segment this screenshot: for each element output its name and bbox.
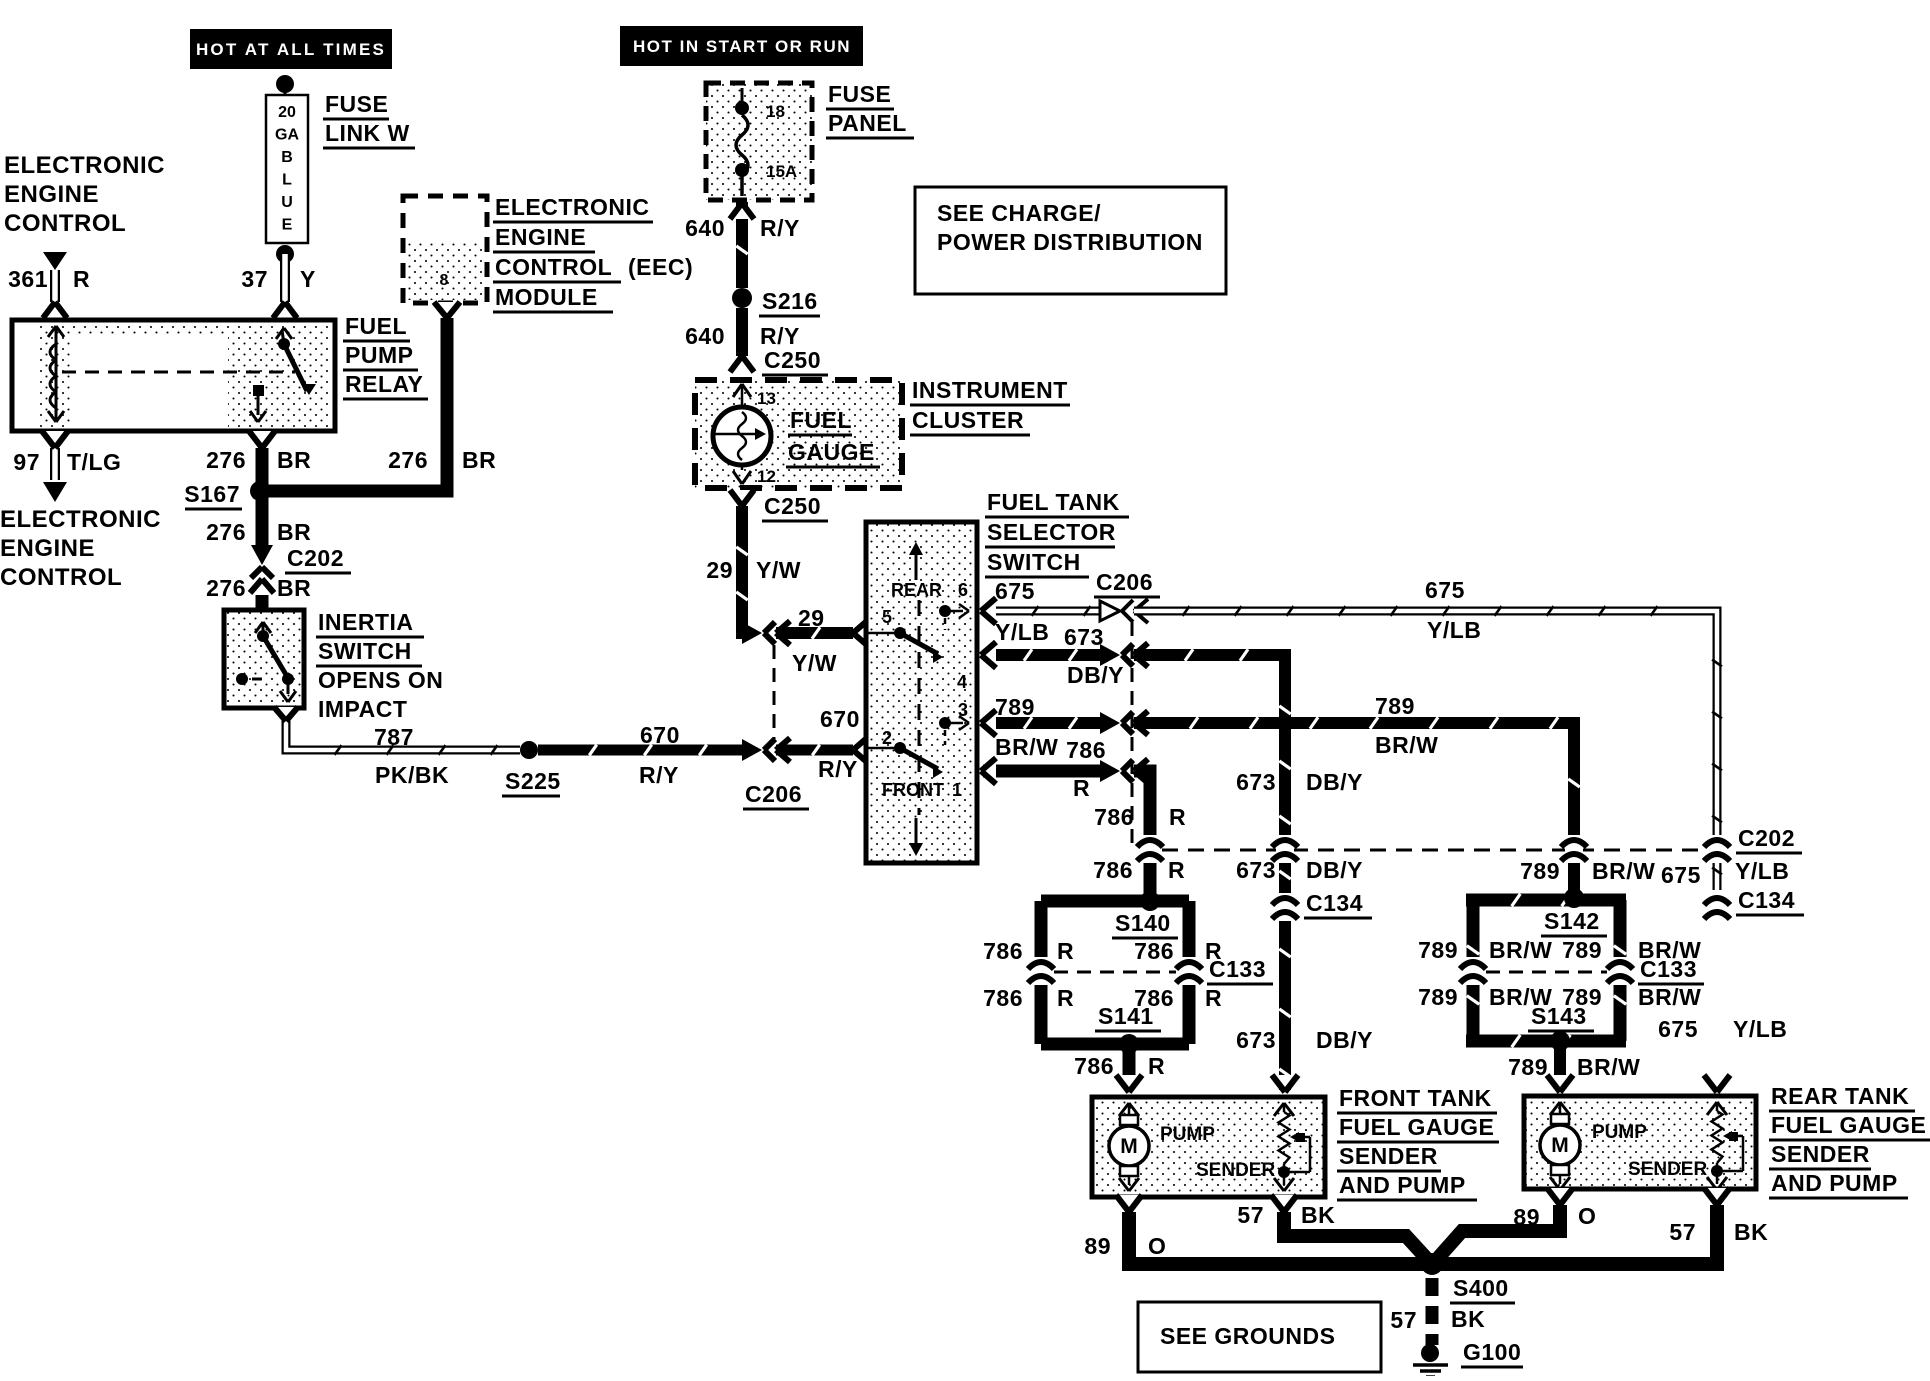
svg-text:FUEL GAUGE: FUEL GAUGE [1771, 1112, 1926, 1138]
svg-text:INSTRUMENT: INSTRUMENT [912, 377, 1068, 403]
svg-text:FRONT TANK: FRONT TANK [1339, 1085, 1492, 1111]
svg-text:789: 789 [1508, 1054, 1548, 1080]
svg-text:BR: BR [277, 575, 311, 601]
svg-text:REAR TANK: REAR TANK [1771, 1083, 1909, 1109]
svg-text:BK: BK [1451, 1306, 1485, 1332]
svg-text:ELECTRONIC: ELECTRONIC [495, 194, 650, 220]
svg-text:FUSE: FUSE [325, 91, 388, 117]
svg-text:S225: S225 [505, 768, 561, 794]
svg-text:786: 786 [983, 938, 1023, 964]
svg-text:18: 18 [766, 102, 785, 121]
svg-text:FUEL GAUGE: FUEL GAUGE [1339, 1114, 1494, 1140]
svg-text:2: 2 [882, 728, 892, 748]
svg-text:97: 97 [13, 449, 40, 475]
svg-text:276: 276 [206, 447, 246, 473]
svg-text:OPENS ON: OPENS ON [318, 667, 443, 693]
svg-text:SENDER: SENDER [1628, 1159, 1707, 1180]
svg-text:C134: C134 [1306, 890, 1363, 916]
svg-text:29: 29 [798, 605, 825, 631]
svg-text:789: 789 [1418, 984, 1458, 1010]
svg-text:M: M [1551, 1134, 1569, 1157]
svg-text:CONTROL: CONTROL [495, 254, 612, 280]
svg-text:GAUGE: GAUGE [788, 439, 875, 465]
svg-text:PUMP: PUMP [1160, 1124, 1215, 1145]
svg-text:B: B [281, 149, 293, 166]
svg-text:T/LG: T/LG [67, 449, 121, 475]
svg-text:CONTROL: CONTROL [4, 210, 126, 237]
svg-text:GA: GA [275, 127, 299, 144]
svg-text:R: R [1205, 985, 1222, 1011]
svg-text:786: 786 [1066, 737, 1106, 763]
svg-text:O: O [1148, 1233, 1166, 1259]
svg-text:789: 789 [1562, 937, 1602, 963]
svg-text:C250: C250 [764, 493, 821, 519]
svg-text:CLUSTER: CLUSTER [912, 407, 1024, 433]
svg-text:AND PUMP: AND PUMP [1339, 1172, 1466, 1198]
svg-text:HOT AT ALL TIMES: HOT AT ALL TIMES [196, 40, 386, 59]
svg-text:29: 29 [706, 557, 733, 583]
svg-text:SEE GROUNDS: SEE GROUNDS [1160, 1323, 1335, 1349]
svg-text:37: 37 [241, 266, 268, 292]
svg-text:4: 4 [957, 672, 967, 692]
svg-text:R/Y: R/Y [818, 756, 858, 782]
svg-text:REAR: REAR [891, 580, 942, 600]
svg-text:FRONT: FRONT [882, 780, 944, 800]
svg-text:ENGINE: ENGINE [4, 181, 99, 208]
svg-text:G100: G100 [1463, 1339, 1521, 1365]
svg-text:HOT IN START OR RUN: HOT IN START OR RUN [633, 37, 851, 56]
svg-text:R: R [73, 266, 90, 292]
svg-text:787: 787 [374, 724, 414, 750]
svg-text:20: 20 [278, 104, 296, 121]
svg-text:R/Y: R/Y [760, 323, 800, 349]
svg-text:U: U [281, 194, 293, 211]
svg-text:O: O [1578, 1203, 1596, 1229]
svg-text:S167: S167 [184, 481, 240, 507]
svg-text:L: L [282, 172, 292, 189]
svg-text:DB/Y: DB/Y [1306, 857, 1363, 883]
svg-text:LINK W: LINK W [325, 120, 410, 146]
svg-text:Y/W: Y/W [756, 557, 801, 583]
svg-text:R/Y: R/Y [760, 215, 800, 241]
svg-text:POWER DISTRIBUTION: POWER DISTRIBUTION [937, 229, 1203, 255]
svg-text:Y/LB: Y/LB [1735, 858, 1789, 884]
svg-text:C202: C202 [1738, 825, 1795, 851]
svg-text:1: 1 [952, 780, 962, 800]
svg-text:8: 8 [440, 272, 449, 289]
svg-text:786: 786 [1093, 857, 1133, 883]
svg-text:BR: BR [462, 447, 496, 473]
svg-text:ENGINE: ENGINE [0, 535, 95, 562]
svg-text:673: 673 [1236, 857, 1276, 883]
svg-text:SENDER: SENDER [1196, 1160, 1275, 1181]
svg-text:673: 673 [1236, 769, 1276, 795]
svg-text:PK/BK: PK/BK [375, 762, 449, 788]
svg-text:BR/W: BR/W [1638, 984, 1701, 1010]
svg-text:89: 89 [1084, 1233, 1111, 1259]
svg-text:5: 5 [882, 607, 892, 627]
svg-text:PUMP: PUMP [1592, 1122, 1647, 1143]
svg-text:675: 675 [1661, 862, 1701, 888]
svg-text:670: 670 [640, 722, 680, 748]
svg-text:SENDER: SENDER [1771, 1141, 1870, 1167]
svg-text:FUSE: FUSE [828, 81, 891, 107]
svg-text:Y/W: Y/W [792, 650, 837, 676]
svg-text:673: 673 [1236, 1027, 1276, 1053]
svg-text:276: 276 [206, 575, 246, 601]
svg-text:SENDER: SENDER [1339, 1143, 1438, 1169]
svg-text:89: 89 [1513, 1204, 1540, 1230]
svg-text:C206: C206 [745, 781, 802, 807]
svg-text:13: 13 [757, 389, 776, 408]
svg-text:M: M [1120, 1135, 1138, 1158]
svg-text:R: R [1168, 857, 1185, 883]
svg-text:BR: BR [277, 447, 311, 473]
svg-text:789: 789 [995, 694, 1035, 720]
svg-text:640: 640 [685, 215, 725, 241]
svg-text:BK: BK [1734, 1219, 1768, 1245]
svg-text:FUEL TANK: FUEL TANK [987, 489, 1120, 515]
svg-text:SEE CHARGE/: SEE CHARGE/ [937, 200, 1101, 226]
svg-text:670: 670 [820, 706, 860, 732]
svg-text:(EEC): (EEC) [628, 254, 693, 280]
svg-text:R: R [1057, 985, 1074, 1011]
svg-text:R: R [1148, 1053, 1165, 1079]
svg-text:ELECTRONIC: ELECTRONIC [4, 152, 165, 179]
svg-text:675: 675 [1425, 577, 1465, 603]
svg-text:BR/W: BR/W [995, 734, 1058, 760]
svg-text:S141: S141 [1098, 1003, 1154, 1029]
svg-text:CONTROL: CONTROL [0, 564, 122, 591]
svg-text:BR/W: BR/W [1489, 937, 1552, 963]
svg-text:640: 640 [685, 323, 725, 349]
svg-text:R: R [1073, 775, 1090, 801]
svg-text:FUEL: FUEL [790, 407, 852, 433]
svg-text:R: R [1205, 938, 1222, 964]
svg-text:S140: S140 [1115, 910, 1171, 936]
svg-text:Y: Y [300, 266, 316, 292]
svg-text:DB/Y: DB/Y [1306, 769, 1363, 795]
svg-text:FUEL: FUEL [345, 313, 407, 339]
svg-text:786: 786 [1094, 804, 1134, 830]
svg-text:PUMP: PUMP [345, 342, 413, 368]
svg-text:276: 276 [206, 519, 246, 545]
svg-text:Y/LB: Y/LB [1733, 1016, 1787, 1042]
svg-text:AND PUMP: AND PUMP [1771, 1170, 1898, 1196]
svg-text:SWITCH: SWITCH [318, 638, 412, 664]
svg-text:MODULE: MODULE [495, 284, 598, 310]
svg-text:789: 789 [1375, 693, 1415, 719]
svg-text:ELECTRONIC: ELECTRONIC [0, 506, 161, 533]
svg-text:BR/W: BR/W [1592, 858, 1655, 884]
svg-text:DB/Y: DB/Y [1067, 662, 1124, 688]
svg-text:BR/W: BR/W [1375, 732, 1438, 758]
svg-text:12: 12 [757, 467, 776, 486]
svg-text:BR: BR [277, 519, 311, 545]
svg-text:S143: S143 [1531, 1003, 1587, 1029]
svg-text:786: 786 [1134, 938, 1174, 964]
svg-text:675: 675 [995, 578, 1035, 604]
svg-text:BK: BK [1301, 1202, 1335, 1228]
svg-text:DB/Y: DB/Y [1316, 1027, 1373, 1053]
svg-text:SELECTOR: SELECTOR [987, 519, 1116, 545]
svg-text:BR/W: BR/W [1577, 1054, 1640, 1080]
svg-text:IMPACT: IMPACT [318, 696, 407, 722]
svg-text:BR/W: BR/W [1638, 937, 1701, 963]
svg-text:R: R [1169, 804, 1186, 830]
svg-text:57: 57 [1669, 1219, 1696, 1245]
svg-text:789: 789 [1418, 937, 1458, 963]
svg-text:Y/LB: Y/LB [995, 619, 1049, 645]
svg-text:R: R [1057, 938, 1074, 964]
svg-text:786: 786 [983, 985, 1023, 1011]
svg-text:Y/LB: Y/LB [1427, 617, 1481, 643]
svg-text:276: 276 [388, 447, 428, 473]
svg-text:786: 786 [1074, 1053, 1114, 1079]
svg-text:C206: C206 [1096, 569, 1153, 595]
svg-text:PANEL: PANEL [828, 110, 907, 136]
svg-text:361: 361 [8, 266, 48, 292]
svg-text:S400: S400 [1453, 1275, 1509, 1301]
svg-text:57: 57 [1237, 1202, 1264, 1228]
svg-text:SWITCH: SWITCH [987, 549, 1081, 575]
svg-text:R/Y: R/Y [639, 762, 679, 788]
svg-text:E: E [282, 217, 293, 234]
svg-text:789: 789 [1520, 858, 1560, 884]
svg-text:673: 673 [1064, 624, 1104, 650]
svg-text:C134: C134 [1738, 887, 1795, 913]
svg-text:57: 57 [1390, 1307, 1417, 1333]
svg-text:RELAY: RELAY [345, 371, 423, 397]
svg-text:ENGINE: ENGINE [495, 224, 586, 250]
svg-text:675: 675 [1658, 1016, 1698, 1042]
svg-text:15A: 15A [766, 162, 797, 181]
svg-text:C202: C202 [287, 545, 344, 571]
svg-text:S142: S142 [1544, 908, 1600, 934]
svg-text:6: 6 [958, 580, 968, 600]
svg-text:C250: C250 [764, 347, 821, 373]
svg-text:INERTIA: INERTIA [318, 609, 414, 635]
svg-text:S216: S216 [762, 288, 818, 314]
